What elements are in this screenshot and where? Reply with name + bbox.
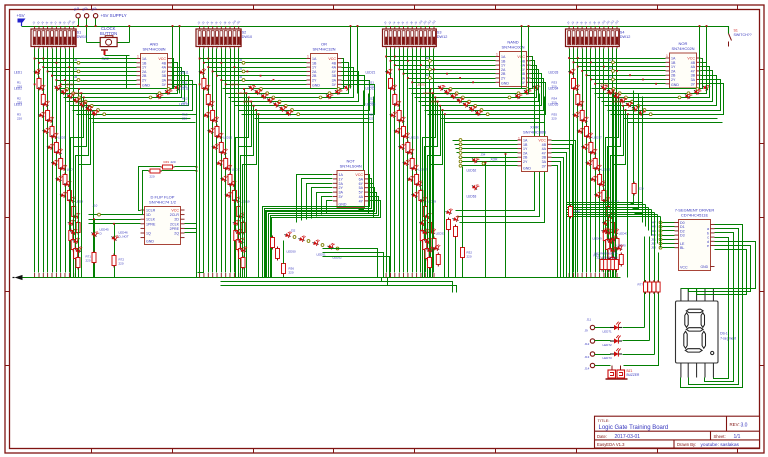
svg-text:1: 1	[137, 55, 139, 59]
resistor R10 220	[76, 221, 80, 235]
wire nest long vertical	[359, 91, 364, 210]
wire nest drop	[258, 115, 260, 278]
wire IC output nest	[239, 81, 370, 111]
junction	[613, 88, 615, 90]
resistor R36 220	[282, 262, 286, 276]
junction	[385, 56, 387, 58]
wire XOR input	[459, 157, 518, 159]
wire bundle line 8	[65, 49, 67, 273]
junction	[199, 58, 201, 60]
wire bundle line 10	[73, 49, 75, 273]
IC NOR	[666, 53, 701, 88]
pin stub bundle	[203, 273, 205, 278]
wire nest drop stair	[606, 98, 619, 278]
svg-text:LED51: LED51	[317, 253, 327, 257]
svg-text:LED53: LED53	[417, 83, 427, 87]
wire pullup right2	[162, 170, 197, 172]
resistor R76 220	[644, 280, 648, 294]
wire driver feed v	[657, 215, 659, 244]
svg-text:LED25: LED25	[410, 136, 420, 140]
wire bundle line 4	[212, 49, 214, 273]
wire driver feed down	[644, 237, 646, 328]
svg-text:VCC: VCC	[355, 173, 363, 177]
border tick	[5, 217, 10, 219]
wire IC input	[57, 80, 137, 82]
junction	[699, 25, 701, 27]
wire nest drop stair	[608, 102, 621, 278]
resistor stair 220	[234, 229, 238, 243]
wire nest drop	[615, 94, 617, 278]
pin stub bundle	[64, 273, 66, 278]
node jumper	[297, 113, 300, 116]
junction	[86, 25, 88, 27]
LED LED31	[428, 227, 436, 235]
title block frame	[595, 416, 760, 448]
junction row	[38, 71, 40, 73]
node jumper right	[517, 92, 520, 95]
svg-text:S1: S1	[734, 29, 738, 33]
junction row	[51, 75, 53, 77]
wire bundle line 2	[38, 49, 40, 273]
LED row	[624, 99, 633, 108]
node jumper	[612, 88, 615, 91]
wire IC output nest	[409, 57, 533, 89]
wire feed drop A	[521, 27, 523, 89]
junction	[196, 166, 198, 168]
resistor R32 220	[454, 225, 458, 239]
junction	[390, 60, 392, 62]
LED LED15b	[216, 158, 224, 166]
svg-text:LED21: LED21	[366, 71, 376, 75]
wire driver feed v	[642, 203, 644, 223]
junction	[573, 61, 575, 63]
wire feed drop B	[706, 27, 708, 94]
svg-text:220: 220	[552, 117, 557, 121]
junction	[577, 66, 579, 68]
display pin bottom	[704, 363, 706, 378]
svg-text:LED43: LED43	[619, 232, 629, 236]
LED LED64	[445, 207, 453, 215]
LED LED10	[72, 211, 80, 219]
wire IC input	[209, 67, 307, 69]
junction row	[56, 62, 58, 64]
junction	[90, 109, 92, 111]
LED LED33	[568, 67, 576, 75]
wire IC input	[387, 56, 496, 58]
LED row	[66, 91, 75, 100]
svg-text:4A: 4A	[359, 195, 364, 199]
wire IC input	[39, 62, 137, 64]
svg-text:1: 1	[307, 55, 309, 59]
wire IC input	[213, 71, 307, 73]
svg-text:2Q: 2Q	[174, 232, 179, 236]
LED LED14b	[211, 142, 219, 150]
junction	[622, 105, 624, 107]
wire IC input	[587, 75, 666, 77]
wire extra row 2	[93, 122, 196, 124]
svg-text:GND: GND	[146, 240, 154, 244]
wire NOT output loop	[266, 184, 374, 278]
svg-text:S2: S2	[242, 31, 247, 35]
svg-text:Sheet:: Sheet:	[714, 434, 726, 439]
node jumper	[468, 100, 471, 103]
wire IC output nest	[226, 63, 349, 94]
wire driver input	[661, 230, 675, 232]
LED LED18	[229, 179, 237, 187]
pin stub bundle	[216, 273, 218, 278]
junction row	[407, 60, 409, 62]
wire nest drop stair	[241, 106, 254, 278]
LED row right	[155, 91, 164, 100]
svg-text:DW10: DW10	[77, 35, 88, 39]
svg-text:LED37: LED37	[593, 136, 603, 140]
node jumper	[78, 96, 81, 99]
node J4x	[659, 238, 662, 241]
junction	[93, 218, 95, 220]
node jumper	[66, 88, 69, 91]
resistor stair 220	[236, 238, 240, 252]
LED LED40	[598, 179, 606, 187]
border tick	[91, 449, 93, 454]
LED row right	[343, 82, 352, 91]
wire IC output nest	[428, 83, 546, 115]
display pin bottom	[687, 363, 689, 378]
border tick	[333, 5, 335, 10]
node jumper J	[242, 70, 245, 73]
pin stub bundle	[581, 273, 583, 278]
resistor R6 220	[59, 157, 63, 171]
junction	[38, 62, 40, 64]
svg-text:3Y: 3Y	[162, 83, 167, 87]
wire XOR input	[462, 165, 518, 167]
junction	[590, 79, 592, 81]
wire bundle line 5	[216, 49, 218, 273]
svg-text:LED31: LED31	[436, 232, 446, 236]
display pin top	[687, 289, 689, 302]
resistor R9 220	[72, 205, 76, 219]
LED row right	[693, 87, 702, 96]
LED row right	[164, 87, 173, 96]
wire driver feed h	[567, 216, 661, 218]
svg-text:3Y: 3Y	[339, 195, 344, 199]
wire bundle line 1	[569, 49, 571, 273]
junction	[625, 109, 627, 111]
pin stub bundle	[68, 273, 70, 278]
DIP switch S3	[383, 26, 437, 49]
LED LED8	[64, 179, 72, 187]
wire extra row 2	[259, 122, 374, 124]
junction	[411, 81, 413, 83]
wire bundle line 7	[412, 49, 414, 273]
svg-text:LED2: LED2	[14, 87, 22, 91]
resistor R17 220	[228, 173, 232, 187]
wire IC output nest	[61, 63, 178, 94]
LED row right	[702, 82, 711, 91]
LED row	[78, 99, 87, 108]
node jumper	[90, 104, 93, 107]
node jumper cluster	[307, 240, 310, 243]
wire IC output nest	[415, 66, 537, 98]
svg-text:J2: J2	[609, 75, 613, 79]
node jumper cluster	[336, 247, 339, 250]
wire IC input	[570, 58, 666, 60]
node JX	[459, 143, 462, 146]
wire driver feed v	[651, 210, 653, 236]
border tick	[760, 291, 765, 293]
junction row	[616, 70, 618, 72]
svg-text:LED3: LED3	[14, 103, 22, 107]
wire bundle line 12	[433, 49, 435, 273]
junction row	[234, 66, 236, 68]
wire nest drop	[78, 89, 80, 278]
resistor stair 220	[241, 256, 245, 270]
svg-text:LED13: LED13	[179, 103, 189, 107]
junction row	[472, 81, 474, 83]
wire NOT input stair	[307, 184, 333, 220]
display pin bottom	[712, 363, 714, 378]
wire block1 right rail	[196, 91, 198, 278]
LED LED37b	[585, 158, 593, 166]
LED LED2	[38, 83, 46, 91]
LED row	[272, 99, 281, 108]
wire sub bus 2	[221, 286, 457, 293]
svg-text:1Q: 1Q	[146, 232, 151, 236]
LED LED36	[581, 115, 589, 123]
wire driver input	[661, 226, 675, 228]
resistor R24 220	[402, 125, 406, 139]
svg-text:LED33: LED33	[549, 71, 559, 75]
svg-text:J2: J2	[74, 75, 78, 79]
wire bundle line 8	[416, 49, 418, 273]
LED row	[59, 87, 68, 96]
resistor R30 220	[428, 221, 432, 235]
node jumper right	[158, 92, 161, 95]
wire XOR output	[552, 145, 573, 278]
wire J15 stem	[86, 19, 88, 27]
wire clock out	[105, 55, 130, 57]
LED LED72	[610, 335, 622, 343]
pin stub bundle	[586, 273, 588, 278]
junction row	[577, 57, 579, 59]
resistor R43 220	[615, 237, 619, 251]
svg-text:6Y: 6Y	[359, 182, 364, 186]
junction	[706, 25, 708, 27]
junction row	[629, 74, 631, 76]
junction row	[69, 66, 71, 68]
wire feed drop A	[172, 27, 174, 89]
LED LED51	[312, 238, 320, 246]
svg-text:LED45: LED45	[243, 99, 253, 103]
LED stair	[70, 227, 78, 235]
wire IC output nest	[223, 59, 344, 89]
wire cluster drop	[323, 253, 384, 278]
wire cluster drop	[323, 257, 390, 278]
wire IC output nest	[229, 68, 354, 98]
wire DFF input	[89, 219, 141, 221]
wire nest long vertical	[363, 97, 374, 218]
resistor R26 220	[410, 157, 414, 171]
wire xor drop 505	[505, 155, 507, 278]
display pin top	[696, 289, 698, 302]
LED LED4	[46, 115, 54, 123]
pin stub bundle	[420, 273, 422, 278]
wire IC input	[48, 71, 137, 73]
node jumper	[284, 104, 287, 107]
wire led46 chain	[114, 224, 116, 278]
svg-text:Date:: Date:	[597, 434, 607, 439]
resistor stair 220	[425, 247, 429, 261]
LED LED39	[594, 163, 602, 171]
junction	[581, 70, 583, 72]
LED LED52	[327, 242, 335, 250]
node jumper J	[429, 59, 432, 62]
svg-text:2Y: 2Y	[142, 79, 147, 83]
wire bundle line 3	[43, 49, 45, 273]
resistor R19 220	[237, 205, 241, 219]
IC AND	[137, 54, 172, 89]
svg-text:VCC: VCC	[171, 209, 179, 213]
wire NOT output loop	[271, 197, 379, 278]
junction	[407, 77, 409, 79]
wire NOT output loop	[265, 179, 372, 278]
junction	[216, 75, 218, 77]
wire bundle line 8	[230, 49, 232, 273]
LED LED38b	[589, 174, 597, 182]
wire IC input	[400, 69, 496, 71]
svg-text:6A: 6A	[359, 177, 364, 181]
wire IC input	[391, 60, 496, 62]
node jumper	[278, 100, 281, 103]
wire bundle line 11	[429, 49, 431, 273]
LED LED24	[398, 115, 406, 123]
resistor R3 220	[46, 109, 50, 123]
svg-text:3Y: 3Y	[332, 83, 337, 87]
resistor R49 220	[161, 165, 175, 169]
wire extra row 1	[441, 118, 540, 120]
svg-text:J53: J53	[651, 246, 656, 250]
LED row	[618, 95, 627, 104]
resistor R63 220	[600, 258, 604, 272]
node jumper J	[429, 77, 432, 80]
svg-text:1: 1	[496, 53, 498, 57]
LED LED13	[207, 99, 215, 107]
node jumper	[260, 88, 263, 91]
svg-text:3Y: 3Y	[691, 82, 696, 86]
junction	[56, 79, 58, 81]
LED LED7b	[59, 190, 67, 198]
junction xor	[485, 162, 487, 164]
wire extra row 2	[445, 122, 545, 124]
wire buzzer row	[595, 365, 611, 367]
resistor R72 220	[112, 254, 116, 268]
wire IC input	[222, 80, 307, 82]
node jumper	[455, 92, 458, 95]
wire IC output nest	[611, 84, 724, 115]
LED LED34	[572, 83, 580, 91]
svg-text:J32: J32	[291, 229, 296, 233]
LED row	[260, 91, 269, 100]
node jumper	[631, 100, 634, 103]
resistor stair 220	[423, 238, 427, 252]
wire driver input	[661, 235, 675, 237]
node jumper	[474, 104, 477, 107]
wire nest drop	[627, 115, 629, 278]
wire driver to display bottom	[689, 229, 739, 385]
wire +5V bus	[22, 26, 729, 28]
pin stub bundle	[47, 273, 49, 278]
junction	[60, 83, 62, 85]
svg-text:5A: 5A	[359, 186, 364, 190]
wire XOR output	[552, 141, 576, 278]
svg-text:R66: R66	[575, 210, 581, 214]
pin stub bundle	[220, 273, 222, 278]
pin stub bundle	[599, 273, 601, 278]
wire bundle line 7	[225, 49, 227, 273]
wire IC input	[408, 78, 496, 80]
wire bundle line 9	[420, 49, 422, 273]
pin stub bundle	[594, 273, 596, 278]
junction	[403, 73, 405, 75]
junction	[615, 92, 617, 94]
resistor R2 220	[41, 93, 45, 107]
svg-text:LED5: LED5	[58, 136, 66, 140]
wire driver to display bottom	[681, 225, 743, 388]
wire XOR input	[456, 148, 518, 150]
node jumper J	[612, 70, 615, 73]
wire bundle line 2	[390, 49, 392, 273]
svg-text:GND: GND	[701, 265, 709, 269]
wire IC output nest	[419, 70, 539, 102]
junction row	[433, 69, 435, 71]
junction	[212, 71, 214, 73]
svg-text:J2: J2	[74, 66, 78, 70]
border tick	[172, 449, 174, 454]
wire xor feed drop b	[462, 260, 464, 278]
svg-text:3.0: 3.0	[741, 422, 748, 428]
svg-text:1PRE: 1PRE	[146, 222, 156, 226]
LED LED11	[198, 67, 206, 75]
IC U5 74HC74	[141, 207, 185, 245]
wire bundle line 1	[199, 49, 201, 273]
border tick	[414, 5, 416, 10]
svg-text:S4: S4	[620, 31, 625, 35]
svg-text:LED19: LED19	[240, 200, 250, 204]
LED LED35b	[576, 126, 584, 134]
connector pin J12	[590, 339, 594, 343]
junction	[250, 101, 252, 103]
LED row	[266, 95, 275, 104]
junction	[93, 113, 95, 115]
wire bundle line 8	[599, 49, 601, 273]
svg-text:LED71: LED71	[603, 330, 613, 334]
wire IC input	[35, 58, 137, 60]
connector pin J14	[76, 14, 80, 18]
junction xor2	[505, 153, 507, 155]
LED row right	[173, 82, 182, 91]
LED row right	[334, 87, 343, 96]
display pin top	[712, 289, 714, 302]
LED LED26	[406, 147, 414, 155]
node jumper	[103, 113, 106, 116]
svg-text:LED72: LED72	[603, 343, 613, 347]
junction row	[590, 61, 592, 63]
wire DFF input	[89, 214, 141, 216]
border tick	[576, 5, 578, 10]
IC U4 74HC86	[518, 137, 552, 172]
svg-text:J2: J2	[239, 66, 243, 70]
resistor R31 220	[432, 237, 436, 251]
LED LED27b	[411, 190, 419, 198]
